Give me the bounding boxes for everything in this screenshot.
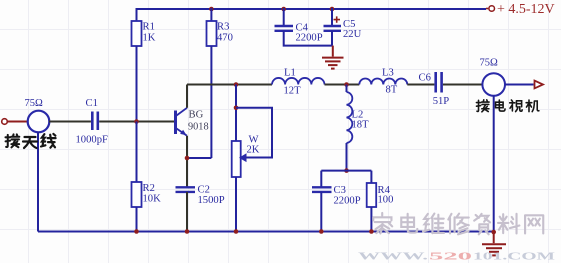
wire C4 stem from rail bbox=[283, 8, 285, 26]
wire C3 bottom to ground rail bbox=[320, 192, 322, 232]
node R2/rail bbox=[134, 229, 139, 234]
svg-text:9018: 9018 bbox=[188, 122, 209, 133]
svg-text:470: 470 bbox=[217, 33, 233, 44]
svg-text:101.COM: 101.COM bbox=[473, 252, 555, 263]
node wiper junction bbox=[234, 106, 239, 111]
power terminal +4.5-12V bbox=[486, 2, 555, 17]
transistor BG 9018 bbox=[176, 108, 209, 136]
wire R4 bottom to ground rail bbox=[370, 207, 372, 232]
capacitor C2 bbox=[176, 185, 225, 207]
svg-text:R2: R2 bbox=[143, 183, 155, 194]
node TV/rail bbox=[491, 230, 496, 235]
node C3/rail bbox=[319, 229, 324, 234]
capacitor C5 bbox=[324, 16, 362, 40]
svg-text:C1: C1 bbox=[86, 98, 98, 109]
wire TV circle to arrow bbox=[505, 84, 534, 86]
wire L2 bottom stem bbox=[346, 143, 348, 171]
svg-text:51P: 51P bbox=[433, 96, 450, 107]
node C3/R4 bus junction bbox=[344, 168, 349, 173]
svg-text:2200P: 2200P bbox=[334, 196, 361, 207]
capacitor C6 bbox=[419, 72, 450, 107]
node base junction bbox=[134, 119, 139, 124]
svg-text:22U: 22U bbox=[343, 29, 362, 40]
svg-text:R3: R3 bbox=[217, 22, 229, 33]
node rail/C5 bbox=[330, 7, 335, 12]
wire R2 bottom to ground rail bbox=[136, 207, 138, 232]
inductor L1 bbox=[272, 68, 324, 97]
svg-text:75Ω: 75Ω bbox=[25, 98, 44, 109]
svg-text:10K: 10K bbox=[143, 194, 162, 205]
svg-text:L1: L1 bbox=[284, 68, 296, 79]
wire W riser bbox=[235, 85, 237, 142]
wire terminal to antenna circle bbox=[7, 121, 28, 123]
watermark jiadianweixiuziliaowang bbox=[373, 213, 543, 234]
svg-text:12T: 12T bbox=[284, 86, 302, 97]
svg-text:BG: BG bbox=[189, 110, 204, 121]
inductor L2 bbox=[347, 92, 370, 143]
wire R1 bottom to base node bbox=[136, 46, 138, 122]
inductor L3 bbox=[359, 68, 407, 96]
svg-text:18T: 18T bbox=[352, 120, 370, 131]
node collector/W junction bbox=[234, 82, 239, 87]
svg-text:2K: 2K bbox=[247, 145, 260, 156]
wire emitter down through C2 node bbox=[186, 136, 188, 187]
capacitor C3 bbox=[312, 185, 361, 207]
svg-text:L3: L3 bbox=[382, 68, 394, 79]
node rail/R3 bbox=[209, 7, 214, 12]
wire R3 bottom down to emitter row bbox=[210, 46, 212, 158]
ground (bottom right) bbox=[482, 232, 506, 255]
resistor R2 bbox=[132, 182, 162, 207]
svg-text:1500P: 1500P bbox=[198, 195, 225, 206]
capacitor C1 bbox=[76, 98, 108, 146]
TV output circle 75ohm bbox=[480, 58, 506, 96]
svg-text:+ 4.5-12V: + 4.5-12V bbox=[497, 2, 555, 17]
resistor R4 bbox=[367, 183, 394, 207]
wire R3 stem from rail bbox=[210, 8, 212, 21]
wire C6 to TV circle bbox=[443, 84, 483, 86]
svg-text:R1: R1 bbox=[143, 22, 155, 33]
wire C5 stem from rail bbox=[331, 8, 333, 26]
wire C3/R4 bus bbox=[321, 170, 371, 172]
svg-text:1K: 1K bbox=[143, 33, 156, 44]
wire C5 bottom to ground node bbox=[331, 31, 333, 46]
resistor R3 bbox=[207, 21, 233, 46]
wire top power rail bbox=[137, 8, 486, 10]
wire L2 top stem bbox=[346, 85, 348, 93]
svg-text:C3: C3 bbox=[334, 185, 346, 196]
svg-text:C6: C6 bbox=[419, 73, 431, 84]
svg-text:WWW.: WWW. bbox=[358, 252, 429, 263]
capacitor C4 bbox=[275, 23, 323, 44]
node rail/C4 bbox=[281, 7, 286, 12]
wire antenna circle to C1 bbox=[49, 121, 91, 123]
antenna source circle 75ohm bbox=[25, 98, 50, 133]
svg-text:520: 520 bbox=[429, 252, 472, 263]
node emitter junction bbox=[185, 156, 190, 161]
node R4/rail bbox=[369, 229, 374, 234]
wire C3 stem bbox=[320, 171, 322, 188]
svg-text:8T: 8T bbox=[386, 85, 398, 96]
wire wiper loop bbox=[236, 108, 272, 158]
wire C1 to base node bbox=[99, 121, 136, 123]
wire W bottom to ground rail bbox=[235, 177, 237, 232]
svg-text:2200P: 2200P bbox=[296, 33, 323, 44]
svg-text:100: 100 bbox=[378, 195, 394, 206]
svg-text:75Ω: 75Ω bbox=[480, 58, 499, 69]
node W/rail bbox=[234, 229, 239, 234]
label jie-dian-shi-ji (connect TV) bbox=[476, 100, 538, 112]
wire L1 to L2 node bbox=[325, 84, 360, 86]
potentiometer W 2K bbox=[232, 135, 260, 178]
label jie-tian-xian (connect antenna) bbox=[5, 134, 55, 148]
wire C4 bottom to ground node bbox=[284, 31, 332, 46]
watermark url bbox=[358, 252, 555, 263]
svg-text:C2: C2 bbox=[198, 185, 210, 196]
wire bottom ground rail bbox=[38, 231, 494, 233]
svg-text:1000pF: 1000pF bbox=[76, 135, 108, 146]
node C2/rail bbox=[185, 229, 190, 234]
wire main row collector to L1 bbox=[187, 84, 272, 86]
antenna input terminal bbox=[2, 119, 10, 125]
wire L3 to C6 bbox=[407, 84, 434, 86]
wire TV drop to ground rail bbox=[493, 96, 495, 232]
wire emitter row bbox=[187, 157, 211, 159]
resistor R1 bbox=[132, 21, 156, 46]
wire antenna drop bbox=[37, 132, 39, 232]
wire C2 bottom to ground rail bbox=[186, 192, 188, 232]
wire base node to transistor base bbox=[137, 121, 175, 123]
wire R1 stem from rail bbox=[136, 8, 138, 21]
node L2 junction bbox=[344, 82, 349, 87]
wire R2 stem bbox=[136, 122, 138, 183]
wire collector up to main row bbox=[186, 85, 188, 108]
output arrow bbox=[535, 81, 544, 89]
ground (top, at C4/C5) bbox=[322, 46, 344, 69]
wire R4 stem bbox=[370, 171, 372, 183]
